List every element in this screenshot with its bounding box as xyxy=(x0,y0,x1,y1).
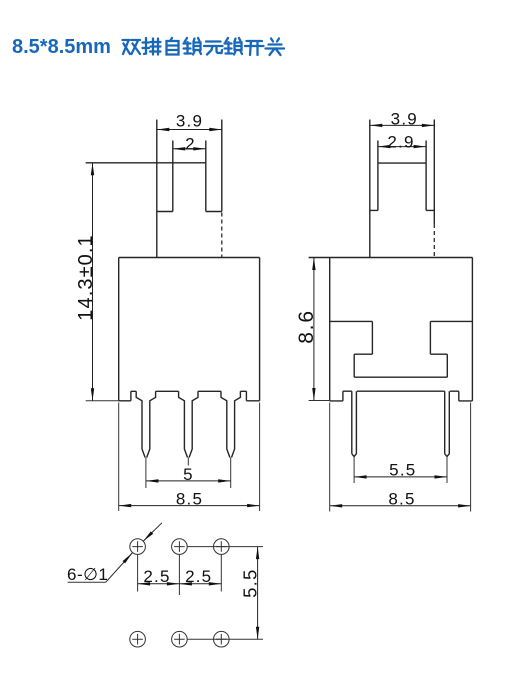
dimension 8.6 right view xyxy=(295,258,330,401)
leader 6-Φ1 xyxy=(67,523,162,584)
footprint hole B3 xyxy=(214,631,230,647)
left view pin 1 xyxy=(136,391,155,470)
footprint hole A1 xyxy=(130,539,146,555)
dimension 2.5 second xyxy=(179,555,221,592)
right view inner step profile xyxy=(330,321,473,377)
svg-text:8.5: 8.5 xyxy=(176,490,203,509)
svg-text:2: 2 xyxy=(185,135,196,154)
right view body xyxy=(309,258,473,401)
dimension 5 left view xyxy=(146,465,231,488)
title chinese 双排自锁无锁开关 xyxy=(123,38,285,55)
right view plunger stem (2.9mm) xyxy=(378,141,426,211)
left view pin 2 xyxy=(179,391,198,465)
svg-text:8.6: 8.6 xyxy=(295,309,318,344)
left view plunger stem (2mm) xyxy=(86,141,206,212)
svg-text:5.5: 5.5 xyxy=(240,569,261,598)
dimension 8.5 right view xyxy=(330,403,471,512)
dimension 3.9 right view xyxy=(370,109,435,128)
left view pin 3 xyxy=(221,391,240,470)
dimension 2.5 first xyxy=(138,555,180,595)
dimension 2 left view xyxy=(173,135,206,154)
left view plunger shoulder (3.9mm) xyxy=(157,120,222,258)
dimension 2.9 right view xyxy=(378,132,426,151)
svg-text:8.5: 8.5 xyxy=(388,490,415,509)
svg-text:8.5*8.5mm: 8.5*8.5mm xyxy=(12,36,111,58)
dimension 14.3±0.1 left view xyxy=(75,163,119,401)
footprint hole A3 xyxy=(214,539,230,555)
svg-text:2.9: 2.9 xyxy=(387,132,414,151)
svg-text:14.3±0.1: 14.3±0.1 xyxy=(75,234,97,321)
svg-text:5: 5 xyxy=(183,465,194,484)
footprint hole A2 xyxy=(172,539,188,555)
footprint hole B2 xyxy=(172,631,188,647)
title xyxy=(12,36,111,58)
right view plunger shoulder (3.9mm) xyxy=(370,120,435,258)
right view pin left xyxy=(352,391,357,470)
dimension 5.5 footprint xyxy=(240,547,261,640)
svg-text:5.5: 5.5 xyxy=(389,460,416,479)
right view pin right xyxy=(445,391,450,470)
dimension 8.5 left view xyxy=(119,403,260,512)
svg-text:3.9: 3.9 xyxy=(176,112,203,131)
svg-text:2.5: 2.5 xyxy=(143,567,170,586)
svg-text:2.5: 2.5 xyxy=(185,567,212,586)
dimension 3.9 left view xyxy=(157,112,222,131)
footprint hole B1 xyxy=(130,631,146,647)
svg-text:6-∅1: 6-∅1 xyxy=(67,565,108,584)
footprint row lines xyxy=(187,547,263,640)
dimension 5.5 right view xyxy=(354,460,447,483)
svg-text:3.9: 3.9 xyxy=(391,109,418,128)
left view body xyxy=(119,258,260,401)
